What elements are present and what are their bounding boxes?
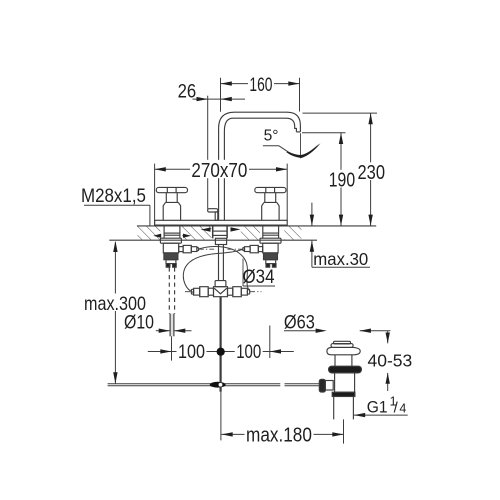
- svg-text:230: 230: [358, 160, 385, 183]
- svg-text:5°: 5°: [264, 127, 279, 144]
- svg-text:190: 190: [329, 169, 355, 191]
- svg-text:max.30: max.30: [313, 249, 368, 269]
- svg-text:26: 26: [178, 81, 197, 102]
- svg-text:M28x1,5: M28x1,5: [81, 184, 146, 206]
- svg-text:Ø34: Ø34: [243, 266, 275, 287]
- svg-text:4: 4: [399, 401, 406, 415]
- svg-text:270x70: 270x70: [191, 159, 247, 182]
- svg-text:G1: G1: [367, 398, 388, 417]
- svg-text:160: 160: [249, 74, 272, 96]
- svg-text:100: 100: [236, 340, 261, 362]
- svg-text:Ø63: Ø63: [284, 312, 315, 333]
- svg-text:100: 100: [178, 341, 205, 363]
- svg-text:max.180: max.180: [246, 423, 312, 446]
- svg-text:40-53: 40-53: [368, 350, 413, 370]
- svg-text:Ø10: Ø10: [124, 311, 154, 333]
